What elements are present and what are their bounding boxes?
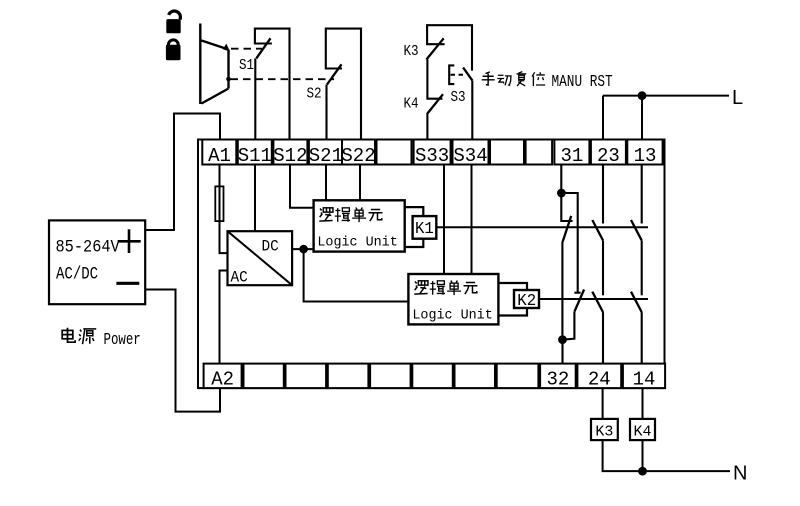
svg-text:AC: AC — [231, 268, 248, 287]
svg-text:A1: A1 — [208, 145, 231, 167]
svg-text:S22: S22 — [341, 145, 375, 167]
svg-text:Power: Power — [104, 331, 141, 349]
svg-text:S11: S11 — [238, 145, 272, 167]
svg-text:A2: A2 — [211, 368, 234, 390]
svg-text:13: 13 — [634, 145, 657, 167]
svg-text:31: 31 — [560, 145, 583, 167]
svg-text:85-264V: 85-264V — [56, 237, 120, 257]
svg-text:Logic Unit: Logic Unit — [412, 309, 492, 324]
svg-text:S2: S2 — [307, 86, 322, 103]
svg-text:S1: S1 — [239, 57, 254, 74]
svg-text:L: L — [732, 87, 743, 109]
svg-text:S33: S33 — [415, 145, 449, 167]
svg-text:K3: K3 — [404, 43, 419, 60]
svg-text:23: 23 — [597, 145, 620, 167]
svg-text:24: 24 — [588, 368, 611, 390]
svg-text:MANU RST: MANU RST — [552, 71, 613, 91]
svg-text:DC: DC — [262, 237, 279, 256]
svg-text:Logic Unit: Logic Unit — [317, 236, 397, 251]
svg-text:N: N — [733, 463, 747, 485]
svg-text:K1: K1 — [415, 220, 434, 238]
svg-text:14: 14 — [633, 368, 656, 390]
svg-text:K2: K2 — [517, 291, 536, 309]
svg-text:S12: S12 — [273, 145, 307, 167]
svg-text:S21: S21 — [309, 145, 343, 167]
svg-text:S3: S3 — [451, 89, 466, 106]
svg-text:32: 32 — [546, 368, 569, 390]
svg-text:K4: K4 — [633, 424, 651, 441]
svg-text:AC/DC: AC/DC — [56, 264, 98, 284]
svg-text:K3: K3 — [595, 424, 613, 441]
svg-text:K4: K4 — [404, 96, 419, 113]
svg-text:S34: S34 — [453, 145, 487, 167]
